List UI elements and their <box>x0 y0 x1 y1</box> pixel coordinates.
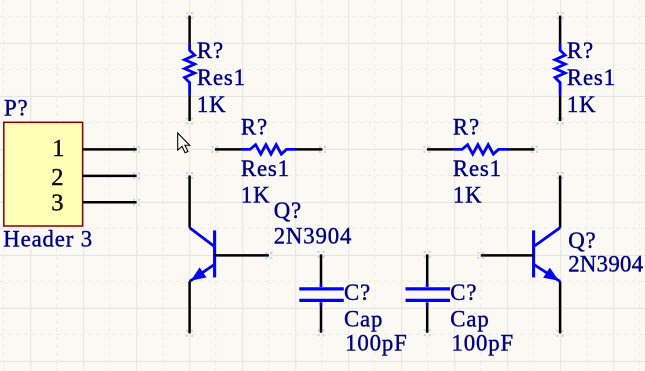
svg-text:Header 3: Header 3 <box>3 227 93 252</box>
svg-text:Cap: Cap <box>450 307 489 332</box>
svg-text:100pF: 100pF <box>452 330 515 355</box>
svg-text:2N3904: 2N3904 <box>568 251 644 276</box>
svg-text:Res1: Res1 <box>241 156 290 181</box>
svg-text:2: 2 <box>51 164 63 191</box>
svg-text:Res1: Res1 <box>197 65 246 90</box>
svg-text:R?: R? <box>453 115 480 140</box>
transistor Q1 symbol (NPN 2N3904) <box>190 228 215 282</box>
transistor Q1 base pin <box>215 254 269 257</box>
pin 1 of P1 <box>83 148 137 151</box>
svg-text:1K: 1K <box>567 92 597 117</box>
capacitor C1 (Cap 100pF) <box>299 254 344 332</box>
mouse cursor <box>178 133 190 153</box>
svg-text:C?: C? <box>344 280 371 305</box>
transistor Q2 symbol (NPN 2N3904) <box>534 228 561 282</box>
transistor Q2 collector wire <box>559 176 562 228</box>
svg-text:1K: 1K <box>453 182 483 207</box>
svg-text:Cap: Cap <box>344 307 383 332</box>
svg-text:C?: C? <box>450 280 477 305</box>
svg-text:P?: P? <box>4 96 29 121</box>
pin 3 of P1 <box>83 201 137 204</box>
svg-text:1: 1 <box>52 135 64 162</box>
resistor R4 (vertical, Res1 1K) <box>555 16 565 121</box>
svg-text:Q?: Q? <box>568 228 596 253</box>
svg-text:1K: 1K <box>241 182 271 207</box>
transistor Q2 emitter wire <box>559 281 562 333</box>
svg-text:Res1: Res1 <box>453 156 502 181</box>
svg-text:R?: R? <box>241 115 268 140</box>
resistor R3 (horizontal, Res1 1K) <box>427 145 535 154</box>
open pin/wire end markers <box>133 12 563 337</box>
svg-text:1K: 1K <box>197 92 227 117</box>
transistor Q1 collector wire <box>188 176 191 228</box>
svg-text:3: 3 <box>51 189 63 216</box>
svg-text:100pF: 100pF <box>345 330 408 355</box>
svg-text:Q?: Q? <box>274 198 302 223</box>
svg-text:R?: R? <box>567 38 594 63</box>
svg-text:R?: R? <box>197 38 224 63</box>
resistor R1 (vertical, Res1 1K) <box>185 16 195 121</box>
connector P1 body (Header 3) <box>4 122 83 226</box>
pin 2 of P1 <box>83 175 137 178</box>
svg-text:Res1: Res1 <box>567 65 616 90</box>
resistor R2 (horizontal, Res1 1K) <box>215 145 323 154</box>
capacitor C2 (Cap 100pF) <box>406 254 451 332</box>
transistor Q2 base pin <box>481 254 534 257</box>
transistor Q1 emitter wire <box>188 281 191 333</box>
svg-text:2N3904: 2N3904 <box>274 224 353 249</box>
